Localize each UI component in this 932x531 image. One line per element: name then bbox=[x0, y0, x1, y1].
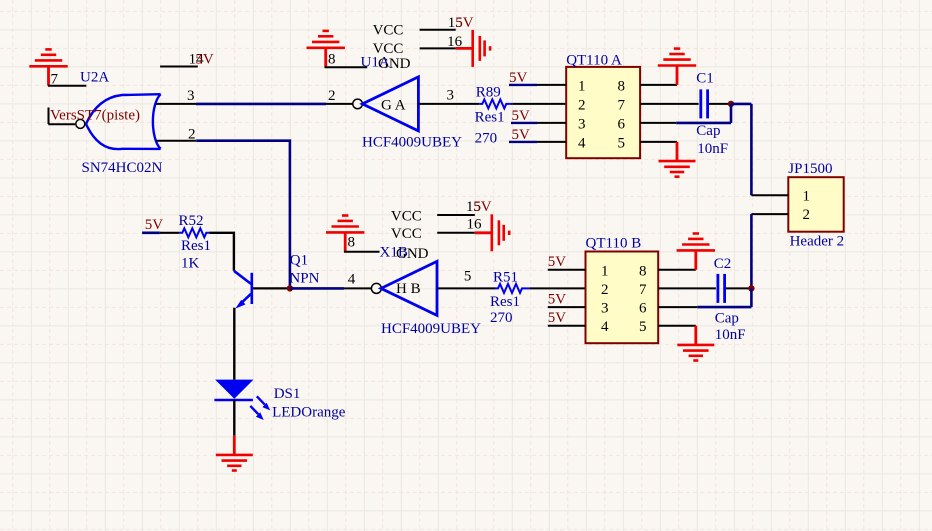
svg-text:GND: GND bbox=[378, 56, 411, 72]
svg-text:5V: 5V bbox=[473, 199, 492, 215]
svg-text:5V: 5V bbox=[512, 108, 531, 124]
svg-text:8: 8 bbox=[618, 79, 626, 95]
svg-text:U2A: U2A bbox=[80, 70, 109, 86]
svg-text:8: 8 bbox=[328, 52, 336, 68]
svg-text:5V: 5V bbox=[548, 310, 567, 326]
svg-text:3: 3 bbox=[601, 301, 609, 317]
svg-text:VersST7(piste): VersST7(piste) bbox=[50, 108, 140, 124]
svg-text:1: 1 bbox=[578, 79, 586, 95]
svg-text:2: 2 bbox=[578, 98, 586, 114]
svg-text:5V: 5V bbox=[455, 15, 474, 31]
svg-text:Res1: Res1 bbox=[181, 238, 211, 254]
svg-text:G A: G A bbox=[381, 97, 406, 113]
svg-text:R89: R89 bbox=[476, 85, 501, 101]
svg-text:4: 4 bbox=[348, 271, 356, 287]
svg-text:270: 270 bbox=[490, 310, 513, 326]
svg-text:HCF4009UBEY: HCF4009UBEY bbox=[362, 135, 462, 151]
svg-text:2: 2 bbox=[328, 88, 336, 104]
svg-text:5V: 5V bbox=[195, 51, 214, 67]
svg-text:4: 4 bbox=[601, 319, 609, 335]
svg-text:SN74HC02N: SN74HC02N bbox=[82, 160, 163, 176]
svg-text:LEDOrange: LEDOrange bbox=[272, 405, 346, 421]
svg-text:3: 3 bbox=[578, 117, 586, 133]
svg-text:2: 2 bbox=[803, 207, 811, 223]
svg-text:QT110 A: QT110 A bbox=[566, 53, 622, 69]
svg-text:Res1: Res1 bbox=[490, 294, 520, 310]
svg-text:270: 270 bbox=[475, 131, 498, 147]
svg-text:10nF: 10nF bbox=[697, 141, 728, 157]
svg-text:4: 4 bbox=[578, 136, 586, 152]
svg-text:GND: GND bbox=[396, 246, 429, 262]
svg-text:Cap: Cap bbox=[715, 311, 739, 327]
svg-text:8: 8 bbox=[348, 235, 356, 251]
svg-text:Res1: Res1 bbox=[475, 109, 505, 125]
svg-text:C2: C2 bbox=[714, 256, 732, 272]
svg-text:JP1500: JP1500 bbox=[788, 161, 832, 177]
svg-text:R52: R52 bbox=[179, 213, 204, 229]
svg-text:C1: C1 bbox=[696, 71, 714, 87]
svg-text:VCC: VCC bbox=[391, 226, 422, 242]
svg-text:1: 1 bbox=[601, 263, 609, 279]
svg-text:DS1: DS1 bbox=[274, 386, 301, 402]
svg-text:QT110 B: QT110 B bbox=[586, 236, 642, 252]
svg-text:5: 5 bbox=[639, 319, 647, 335]
svg-text:5V: 5V bbox=[512, 127, 531, 143]
svg-text:16: 16 bbox=[467, 217, 483, 233]
svg-text:1: 1 bbox=[803, 188, 811, 204]
svg-text:NPN: NPN bbox=[289, 271, 319, 287]
svg-text:Header 2: Header 2 bbox=[790, 234, 845, 250]
svg-text:5: 5 bbox=[464, 268, 472, 284]
svg-text:7: 7 bbox=[618, 98, 626, 114]
svg-text:Q1: Q1 bbox=[290, 253, 308, 269]
svg-text:2: 2 bbox=[188, 126, 196, 142]
svg-text:HCF4009UBEY: HCF4009UBEY bbox=[381, 321, 481, 337]
svg-text:5V: 5V bbox=[548, 254, 567, 270]
svg-text:10nF: 10nF bbox=[715, 327, 746, 343]
svg-text:2: 2 bbox=[601, 282, 609, 298]
svg-text:VCC: VCC bbox=[391, 208, 422, 224]
svg-text:H B: H B bbox=[396, 281, 421, 297]
svg-text:3: 3 bbox=[187, 88, 195, 104]
svg-text:Cap: Cap bbox=[696, 123, 720, 139]
svg-text:5: 5 bbox=[618, 136, 626, 152]
svg-text:VCC: VCC bbox=[373, 23, 404, 39]
svg-text:5V: 5V bbox=[509, 70, 528, 86]
svg-text:8: 8 bbox=[639, 263, 647, 279]
svg-text:3: 3 bbox=[447, 88, 455, 104]
svg-text:6: 6 bbox=[639, 301, 647, 317]
svg-text:7: 7 bbox=[51, 72, 59, 88]
svg-text:6: 6 bbox=[618, 117, 626, 133]
svg-text:R51: R51 bbox=[493, 270, 518, 286]
svg-text:5V: 5V bbox=[548, 291, 567, 307]
svg-text:7: 7 bbox=[639, 282, 647, 298]
svg-text:5V: 5V bbox=[145, 217, 164, 233]
svg-text:1K: 1K bbox=[181, 256, 200, 272]
